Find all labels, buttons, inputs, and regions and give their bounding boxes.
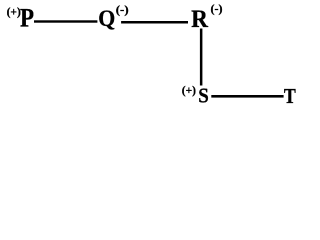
wire Q-R xyxy=(121,21,188,24)
node S xyxy=(198,83,209,107)
node Q xyxy=(98,6,115,32)
wire P-Q xyxy=(34,20,97,22)
node T xyxy=(284,84,296,108)
node P xyxy=(20,3,34,32)
polarity label (-) of node Q xyxy=(116,2,129,16)
svg-text:(-): (-) xyxy=(116,2,129,16)
svg-text:(+): (+) xyxy=(182,83,196,97)
polarity label (-) of node R xyxy=(211,2,223,16)
wire S-T xyxy=(211,95,283,98)
svg-text:S: S xyxy=(198,83,209,107)
svg-text:(-): (-) xyxy=(211,2,223,16)
wire R-S (vertical) xyxy=(200,29,203,86)
svg-text:Q: Q xyxy=(98,6,115,32)
svg-text:(+): (+) xyxy=(7,4,21,18)
polarity label (+) of node P xyxy=(7,4,21,18)
polarity label (+) of node S xyxy=(182,83,196,97)
svg-text:P: P xyxy=(20,3,34,32)
svg-text:T: T xyxy=(284,84,296,108)
node R xyxy=(191,6,209,33)
